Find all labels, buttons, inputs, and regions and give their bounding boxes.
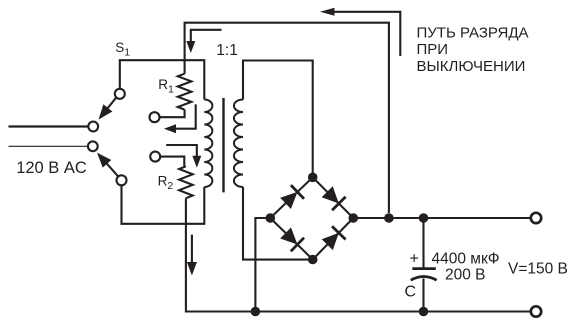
transformer secondary winding <box>234 100 243 188</box>
transformer primary winding <box>204 100 212 188</box>
svg-text:+: + <box>410 251 419 268</box>
wire S1 top to transformer primary top <box>120 60 205 99</box>
wire capacitor top lead <box>422 218 424 269</box>
switch S1 blade arrow upper <box>107 98 117 110</box>
capacitor C positive plate <box>412 267 436 270</box>
wire AC line 2 (neutral) <box>9 145 88 147</box>
switch S1 pole lower <box>117 175 127 185</box>
node capacitor positive tap <box>419 213 429 223</box>
node bridge top <box>308 173 318 183</box>
node capacitor negative tap <box>419 307 429 317</box>
terminal R1 wiper post <box>150 112 160 122</box>
arrow discharge down into R1 node <box>191 30 222 43</box>
arrow discharge down return <box>191 235 193 264</box>
svg-text:4400 мкФ: 4400 мкФ <box>432 251 500 268</box>
switch S1 pole upper <box>115 89 125 99</box>
wire bridge negative to rail <box>255 218 270 312</box>
node bridge right <box>349 213 359 223</box>
svg-text:R2: R2 <box>158 174 174 193</box>
switch S1 fixed contact lower <box>88 141 98 151</box>
wire discharge path top <box>185 23 389 213</box>
svg-text:1:1: 1:1 <box>216 42 238 59</box>
resistor R2 <box>160 157 184 167</box>
wire negative rail <box>255 310 530 312</box>
svg-text:200 В: 200 В <box>445 267 486 284</box>
arrow discharge into R2 <box>166 145 197 158</box>
wire S1 bottom to primary bottom <box>122 185 205 223</box>
wire R2 bottom to negative rail <box>186 198 256 311</box>
node bridge bottom <box>308 255 318 265</box>
switch S1 fixed contact upper <box>88 122 98 132</box>
svg-text:120 В AC: 120 В AC <box>16 159 87 177</box>
svg-text:ПУТЬ РАЗРЯДА: ПУТЬ РАЗРЯДА <box>417 25 529 42</box>
wire secondary top to bridge <box>243 61 313 178</box>
arrow discharge annotation top <box>333 12 401 56</box>
wire capacitor bottom lead <box>422 278 424 311</box>
node bridge left <box>266 213 276 223</box>
arrow discharge through R1 <box>174 104 196 128</box>
transformer core <box>222 98 224 192</box>
switch S1 blade arrow lower <box>106 162 119 176</box>
terminal output negative <box>531 306 541 316</box>
diode D1 top-left <box>280 192 297 209</box>
diode D2 top-right <box>322 186 339 203</box>
node negative rail junction <box>251 307 261 317</box>
wire bridge diamond <box>270 177 353 259</box>
resistor R1 <box>184 60 186 73</box>
terminal output positive <box>531 213 541 223</box>
node discharge tap <box>384 213 394 223</box>
svg-text:V=150 В: V=150 В <box>508 261 568 278</box>
svg-text:S1: S1 <box>115 40 130 59</box>
wire positive rail <box>353 217 530 219</box>
capacitor C negative plate <box>411 277 437 281</box>
diode D4 bottom-right <box>322 233 339 250</box>
svg-text:ВЫКЛЮЧЕНИИ: ВЫКЛЮЧЕНИИ <box>417 58 526 75</box>
svg-text:ПРИ: ПРИ <box>417 41 449 58</box>
wire AC line 1 (hot) <box>9 125 89 127</box>
wire secondary bottom to bridge <box>243 187 313 260</box>
diode D3 bottom-left <box>280 227 297 244</box>
svg-text:C: C <box>405 284 417 301</box>
terminal R2 wiper post <box>150 152 160 162</box>
svg-text:R1: R1 <box>158 77 174 96</box>
